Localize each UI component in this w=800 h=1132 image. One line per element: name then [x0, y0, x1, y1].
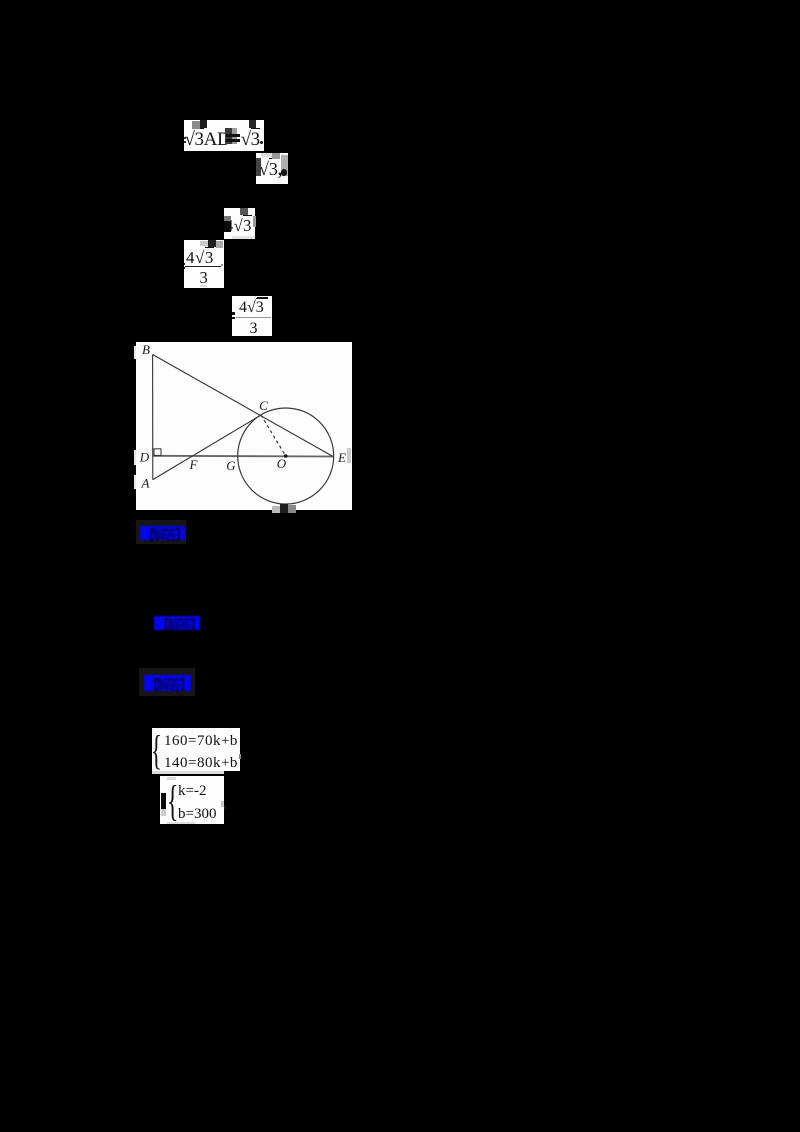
- svg-text:O: O: [277, 456, 287, 471]
- svg-text:B: B: [142, 342, 150, 357]
- svg-text:F: F: [189, 457, 199, 472]
- svg-text:C: C: [259, 398, 268, 413]
- svg-text:A: A: [141, 476, 150, 491]
- svg-text:E: E: [337, 450, 346, 465]
- svg-text:G: G: [226, 458, 236, 473]
- svg-text:D: D: [139, 450, 150, 465]
